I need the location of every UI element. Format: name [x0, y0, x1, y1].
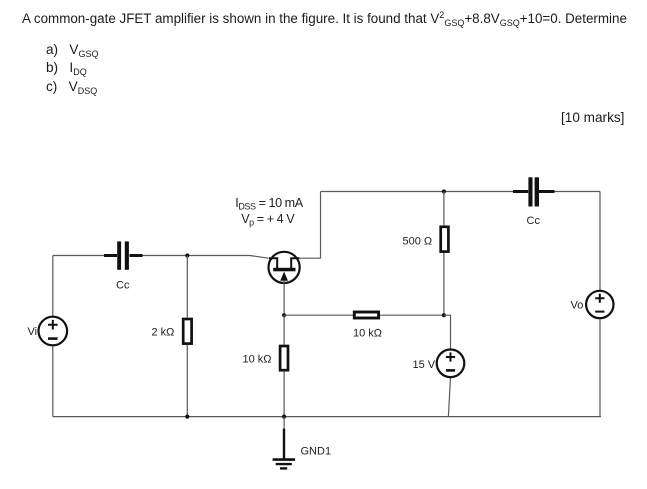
value label 500 Ohm — [403, 236, 433, 248]
svg-text:Vp = + 4 V: Vp = + 4 V — [241, 212, 295, 228]
node B junction dot on top rail — [442, 189, 446, 193]
resistor R1 2 kOhm — [183, 319, 191, 344]
svg-text:500 Ω: 500 Ω — [403, 236, 433, 248]
resistor R3 10 kOhm horizontal — [354, 312, 378, 318]
value label Cc (input) — [116, 280, 130, 292]
resistor R4 10 kOhm vertical — [280, 346, 288, 370]
wire: node D to 15V source — [444, 315, 451, 416]
source Vi — [39, 317, 68, 346]
wire: gate lead down from JFET — [283, 281, 285, 316]
marks label — [561, 110, 624, 125]
wire: capacitor Cc to node A — [143, 256, 269, 259]
label Vi — [28, 326, 38, 338]
wire: 10k vertical branch — [283, 315, 285, 416]
node C junction dot — [282, 313, 286, 317]
value label 10 kOhm (vertical resistor) — [243, 354, 272, 366]
source V1 15 V — [437, 350, 465, 378]
value label Cc (output) — [527, 215, 541, 227]
wire: top-left horizontal from Vi top to capacitor Cc — [53, 255, 104, 257]
value label 2 kOhm — [152, 326, 175, 338]
capacitor C1 (Cc input) — [104, 241, 143, 269]
list item a — [46, 42, 99, 57]
source Vo — [586, 291, 613, 318]
wire: drain lead up to top rail — [299, 192, 320, 259]
svg-text:Vo: Vo — [571, 300, 584, 312]
capacitor C2 (Cc output) — [513, 177, 555, 206]
value label 15 V — [413, 359, 436, 371]
node A junction dot — [185, 253, 189, 257]
svg-text:15 V: 15 V — [413, 359, 436, 371]
wire: top rail right of Cc to right corner — [555, 191, 601, 193]
svg-text:10 kΩ: 10 kΩ — [353, 328, 382, 340]
ground GND1 — [273, 429, 296, 469]
list item c — [46, 79, 97, 94]
list item b — [46, 60, 87, 75]
node D junction dot — [442, 313, 446, 317]
svg-text:Cc: Cc — [116, 280, 130, 292]
svg-text:Cc: Cc — [527, 215, 541, 227]
wire: mid horizontal to node D — [284, 314, 444, 316]
svg-text:Vi: Vi — [28, 326, 38, 338]
title line — [22, 11, 627, 26]
svg-text:GND1: GND1 — [301, 446, 332, 458]
resistor R2 500 Ohm — [441, 227, 449, 252]
label GND1 — [301, 446, 332, 458]
node E junction dot (2k to bottom rail) — [185, 415, 189, 419]
label Vo — [571, 300, 584, 312]
wire: right rail with Vo — [599, 192, 601, 417]
wire: top rail — [321, 191, 514, 193]
wire: bottom rail — [53, 416, 601, 418]
svg-text:2 kΩ: 2 kΩ — [152, 326, 175, 338]
wire: ground stem thin — [283, 417, 285, 429]
node F junction dot (ground node) — [282, 415, 286, 419]
svg-text:IDSS = 10 mA: IDSS = 10 mA — [235, 196, 303, 212]
transistor Q1 JFET — [269, 252, 300, 283]
wire: 2k branch vertical — [186, 256, 188, 417]
svg-text:10 kΩ: 10 kΩ — [243, 354, 272, 366]
value label 10 kOhm (horizontal resistor) — [353, 328, 382, 340]
label IDSS = 10 mA — [235, 196, 303, 212]
wire: 500 ohm branch vertical — [443, 192, 445, 316]
label Vp = + 4 V — [241, 212, 295, 228]
wire: left rail (Vi branch) — [52, 256, 54, 417]
